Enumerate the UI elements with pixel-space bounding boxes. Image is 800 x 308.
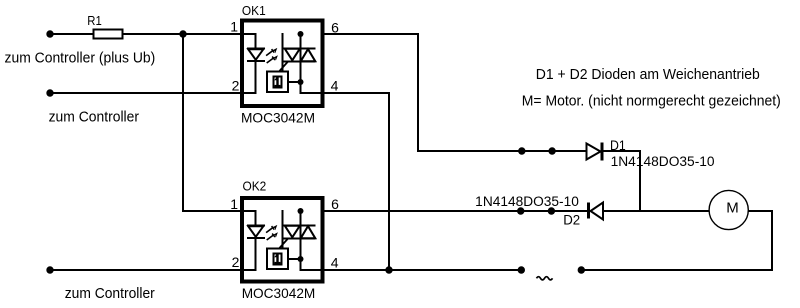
svg-text:1N4148DO35-10: 1N4148DO35-10 <box>611 154 715 169</box>
wire row D: vertical to OK2 pin1 <box>182 210 242 212</box>
node dot row E break right <box>578 266 585 273</box>
triac bottom bar <box>284 61 316 63</box>
svg-text:2: 2 <box>232 254 240 270</box>
svg-text:6: 6 <box>331 196 339 212</box>
pin1 inner wire <box>240 33 257 35</box>
node dot row E left <box>46 266 53 273</box>
pin2 inner wire <box>240 92 257 94</box>
svg-text:6: 6 <box>331 19 339 35</box>
optocoupler OK1 body <box>240 19 325 109</box>
wire row E: controller to OK2 pin2 <box>50 269 242 271</box>
AC squiggle <box>537 277 553 280</box>
svg-text:MOC3042M: MOC3042M <box>241 110 315 126</box>
svg-text:MOC3042M: MOC3042M <box>242 285 316 301</box>
svg-text:OK2: OK2 <box>243 178 267 193</box>
svg-text:D1 + D2 Dioden am Weichenantri: D1 + D2 Dioden am Weichenantrieb <box>536 67 760 83</box>
LED vertical top <box>255 33 257 48</box>
triac triangle right <box>301 49 316 61</box>
svg-text:1: 1 <box>230 196 238 212</box>
node dot row C 2 <box>548 147 555 154</box>
vertical wire x417 rowA to rowC <box>417 33 419 152</box>
wire row A: controller plus Ub to OK1 pin1 <box>50 33 773 271</box>
zero cross detector box <box>266 71 289 94</box>
motor M <box>709 190 748 229</box>
svg-text:M: M <box>726 200 739 217</box>
svg-text:1N4148DO35-10: 1N4148DO35-10 <box>475 194 579 209</box>
wire break to right corner <box>581 269 773 271</box>
triac top bar <box>284 48 316 50</box>
node dot triac top <box>298 31 304 37</box>
wire OK2 pin4 to break <box>324 269 522 271</box>
triac center vertical <box>300 33 302 93</box>
svg-text:4: 4 <box>331 255 339 271</box>
LED cathode bar <box>247 60 265 62</box>
LED vertical bottom <box>255 62 257 93</box>
vertical wire x771 motor return <box>771 210 773 271</box>
diode D1 <box>587 143 604 161</box>
gate line <box>280 62 289 72</box>
vertical wire x388 OK1 pin4 to row E <box>388 92 390 271</box>
optocoupler OK2 body <box>240 196 325 284</box>
wire row B: controller to OK1 pin2 <box>50 92 242 94</box>
svg-text:zum Controller: zum Controller <box>65 286 155 302</box>
svg-text:2: 2 <box>232 78 240 94</box>
node dot row A left <box>46 30 53 37</box>
svg-text:D1: D1 <box>610 138 626 153</box>
diode D2 <box>587 203 603 220</box>
node dot row A junction <box>179 30 186 37</box>
OK2 internals <box>240 208 325 271</box>
wire D2 to motor <box>603 210 710 212</box>
svg-text:1: 1 <box>230 19 238 35</box>
light arrow 2 <box>267 55 278 63</box>
wire OK2 pin6 to D2 <box>324 210 587 212</box>
node dot row B left <box>46 89 53 96</box>
node dot row E at x389 <box>385 266 392 273</box>
svg-text:D2: D2 <box>563 213 580 228</box>
wire motor to right corner <box>748 210 773 212</box>
triac left vertical <box>282 33 284 71</box>
LED anode bar <box>247 48 265 50</box>
vertical wire x640 D1 to rowD <box>639 150 641 212</box>
node dot row C 1 <box>518 147 525 154</box>
pin4 inner wire <box>300 92 325 94</box>
LED triangle <box>248 49 263 60</box>
svg-text:OK1: OK1 <box>242 3 266 18</box>
wire OK1 pin6 to vertical <box>324 33 419 35</box>
node dot row D 1 <box>517 207 524 214</box>
svg-text:zum Controller (plus Ub): zum Controller (plus Ub) <box>5 51 156 67</box>
wire OK1 pin4 to vertical <box>324 92 390 94</box>
triac triangle left <box>285 49 300 61</box>
node dot triac gate <box>298 79 304 85</box>
node dot row D 2 <box>548 207 555 214</box>
OK1 internals <box>240 31 325 94</box>
wire row C: D1 branch <box>417 150 587 152</box>
node dot row E break left <box>518 266 525 273</box>
svg-text:M= Motor. (nicht normgerecht g: M= Motor. (nicht normgerecht gezeichnet) <box>522 94 781 110</box>
svg-text:4: 4 <box>331 78 339 94</box>
light arrow 1 <box>266 48 277 56</box>
vertical wire x182 rowA to rowD <box>182 33 184 212</box>
svg-text:zum Controller: zum Controller <box>49 109 140 125</box>
detector digit 1 <box>274 77 280 86</box>
svg-text:R1: R1 <box>87 13 102 28</box>
detector box out wire <box>289 81 300 83</box>
resistor R1 <box>93 29 124 40</box>
